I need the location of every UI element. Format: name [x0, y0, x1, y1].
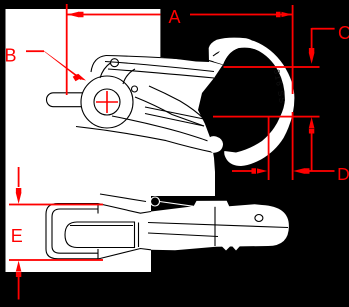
dim E upper ref line: [9, 204, 103, 206]
B leader horizontal: [26, 50, 44, 52]
eye outer circle: [81, 76, 133, 128]
dim A left arrowhead: [67, 12, 83, 18]
dim E down arrowhead: [16, 188, 22, 204]
dim E lower shaft: [18, 276, 20, 300]
dim C top ref line: [224, 66, 320, 68]
jaw inner edge: [112, 116, 208, 141]
bottom view: eye inner: [52, 209, 98, 253]
dim D left arrowhead: [252, 168, 268, 174]
bottom view: barrel top inner line: [70, 225, 133, 227]
body lower inner edge: [108, 69, 214, 78]
eye inner circle: [94, 89, 120, 115]
dim E lower ref line: [9, 259, 103, 261]
bottom view: lever/bar separation: [214, 207, 216, 246]
jaw tip: [208, 137, 223, 153]
body top inner edge: [105, 62, 214, 72]
bottom view: barrel: [65, 222, 135, 248]
dim A line left segment: [67, 14, 160, 16]
bottom view: eye outer: [46, 204, 98, 259]
bottom view: bar bottom left: [98, 249, 151, 260]
dim D right line: [308, 170, 335, 172]
hinge pin circle: [111, 59, 119, 67]
bottom view: bar inner line: [148, 223, 288, 228]
gate strip top: [145, 107, 204, 119]
svg-text:B: B: [4, 46, 16, 66]
bottom view: bar+lever silhouette: [151, 201, 289, 251]
dim C down shaft: [311, 28, 313, 49]
bottom view: spring coil: [151, 197, 160, 206]
B cross: [96, 91, 118, 113]
dim A right arrowhead: [276, 12, 292, 18]
gate strip bottom: [145, 114, 206, 127]
bottom view: thumb lever line: [100, 194, 146, 202]
dim C elbow: [312, 28, 335, 30]
dim A/D right extension line upper: [292, 5, 294, 94]
jaw bottom edge: [76, 127, 213, 153]
dim A line right segment: [190, 14, 293, 16]
svg-text:D: D: [337, 164, 349, 184]
white drawing blob: [6, 9, 258, 272]
dim E up arrowhead: [16, 261, 22, 277]
dim A/D right extension line lower: [292, 112, 294, 180]
dim D left line: [232, 170, 254, 172]
latch tab inner: [213, 50, 229, 56]
svg-text:C: C: [338, 23, 349, 43]
bottom view: barrel joint line: [138, 223, 140, 248]
dim C down arrowhead: [309, 48, 315, 64]
dim D right arrowhead: [293, 168, 309, 174]
bottom view: bar top left: [98, 204, 151, 214]
circle to gate link: [135, 97, 204, 126]
body top edge: [106, 56, 223, 65]
dim A left extension line: [66, 4, 68, 95]
gate pivot pin: [132, 86, 138, 92]
neck arc inner: [123, 69, 135, 84]
latch seat knob: [219, 53, 237, 59]
dim C up arrowhead: [309, 117, 315, 134]
bottom view: bar inner line 2: [148, 233, 218, 237]
bottom view: cap rivet: [255, 215, 263, 222]
dim D left extension line: [268, 117, 270, 180]
svg-text:E: E: [11, 226, 23, 246]
bottom view: feet left: [222, 246, 231, 251]
bottom view: eye right top tick: [97, 204, 99, 214]
neck arc upper: [100, 63, 111, 79]
dim C bottom ref line: [213, 116, 320, 118]
dim C up shaft: [311, 132, 313, 171]
dim E upper shaft: [18, 167, 20, 187]
shoulder bump: [91, 56, 106, 73]
hinge diagonal: [149, 86, 204, 119]
hook bow band (filled): [214, 39, 295, 166]
B leader diagonal: [43, 50, 81, 80]
pill lever: [47, 93, 100, 107]
B arrowhead: [73, 74, 86, 82]
bottom view: feet right: [232, 246, 240, 251]
svg-text:A: A: [168, 7, 180, 27]
bottom view: eye right bottom tick: [97, 249, 99, 259]
bottom view: coil link: [160, 202, 194, 207]
